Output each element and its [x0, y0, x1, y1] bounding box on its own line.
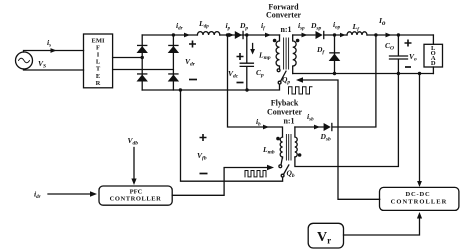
- svg-text:PFC: PFC: [130, 188, 143, 195]
- label V_fb minus: [200, 173, 208, 175]
- V_r reference box: [308, 223, 343, 248]
- node flyback secondary dot: [298, 153, 302, 157]
- label V_dr minus: [189, 79, 197, 81]
- node secondary polarity dot: [296, 39, 300, 43]
- transformer T2 primary winding: [280, 137, 282, 158]
- label V_dc minus: [237, 82, 244, 84]
- switch Q_b: [281, 157, 283, 165]
- node C_O top: [397, 33, 400, 36]
- node bottom rail flyback return: [179, 88, 182, 91]
- wire DC-DC output to Q_p gate: [303, 80, 380, 199]
- transformer T1 core: [284, 38, 289, 69]
- wire V_o sense to DC-DC controller: [419, 74, 421, 182]
- label V_o plus: [405, 40, 412, 47]
- current arrow i_s: [51, 48, 57, 53]
- bridge diode top-left: [137, 45, 148, 53]
- current arrow i_op: [340, 33, 346, 38]
- node bridge mid-left: [141, 56, 144, 59]
- PFC controller box: [99, 186, 172, 205]
- current arrow i_sb: [314, 125, 320, 130]
- diode D_p: [235, 31, 244, 39]
- diode D_f freewheel: [334, 35, 336, 74]
- node D_f top: [333, 33, 336, 36]
- node primary polarity dot: [273, 39, 277, 43]
- switch Q_p: [277, 69, 280, 72]
- svg-text:F: F: [96, 44, 100, 51]
- node bridge top-right: [172, 33, 175, 36]
- label V_dc plus: [237, 53, 244, 60]
- gate pulse waveform of Q_b: [245, 171, 266, 177]
- diode D_sb: [324, 123, 333, 131]
- svg-text:CONTROLLER: CONTROLLER: [391, 199, 448, 206]
- EMI filter box: [84, 34, 113, 88]
- current arrow I_o: [386, 33, 392, 38]
- capacitor C_p: [240, 35, 253, 90]
- current arrow i_sp: [302, 33, 308, 38]
- bridge rectifier right leg: [172, 35, 174, 90]
- wire EMI to bridge top: [113, 57, 143, 59]
- node flyback feed tap: [226, 33, 229, 36]
- wire flyback secondary bottom return: [295, 74, 399, 167]
- current arrow i_dr into PFC: [48, 193, 90, 195]
- node C_O bottom: [397, 72, 400, 75]
- node output sense tap: [418, 72, 421, 75]
- wire forward secondary top rail: [293, 34, 347, 36]
- ac source VS: [16, 52, 33, 69]
- wire forward secondary bottom: [292, 67, 294, 74]
- bridge rectifier left leg: [141, 35, 143, 90]
- wire output bottom rail: [293, 73, 434, 75]
- label V_o minus: [405, 66, 411, 68]
- svg-text:CONTROLLER: CONTROLLER: [110, 195, 162, 202]
- inductor L_dp: [197, 32, 219, 35]
- DC-DC controller box: [380, 187, 459, 210]
- svg-text:T: T: [96, 66, 101, 73]
- current arrow i_p: [229, 33, 235, 38]
- wire Q_b return to bottom rail node: [181, 90, 283, 181]
- transformer T1 secondary winding: [293, 35, 296, 66]
- gate pulse waveform of Q_p: [289, 87, 313, 94]
- node C_p top: [245, 33, 248, 36]
- wire flyback secondary top to D_sb: [295, 126, 324, 128]
- wire EMI to bridge bottom: [113, 69, 174, 71]
- wire source top to EMI: [24, 51, 84, 53]
- wire bottom DC rail: [142, 84, 279, 90]
- load box: [424, 44, 443, 67]
- current arrow i_f: [265, 33, 271, 38]
- node flyback output tie: [374, 33, 377, 36]
- svg-text:Converter: Converter: [266, 11, 302, 20]
- diode D_sp: [316, 31, 325, 39]
- svg-text:n:1: n:1: [283, 117, 294, 126]
- svg-text:L: L: [96, 59, 101, 66]
- svg-text:DC-DC: DC-DC: [406, 191, 431, 198]
- svg-text:EMI: EMI: [92, 37, 105, 44]
- bridge diode top-right: [168, 45, 179, 53]
- svg-text:Flyback: Flyback: [271, 99, 299, 108]
- transformer T1 primary winding: [276, 35, 279, 69]
- bridge diode bottom-right: [168, 73, 179, 81]
- bridge diode bottom-left: [137, 73, 148, 81]
- svg-text:E: E: [96, 73, 100, 80]
- wire source bottom to EMI: [24, 69, 84, 70]
- current arrow i_dr: [184, 33, 190, 38]
- wire load top stub: [432, 35, 434, 44]
- current annotation arrow I_mp: [252, 44, 254, 52]
- transformer T2 secondary winding: [295, 127, 297, 157]
- node C_p bottom: [245, 88, 248, 91]
- wire D_sb to output positive rail: [333, 35, 376, 127]
- transformer T2 core: [286, 135, 291, 161]
- wire load bottom stub: [432, 67, 434, 74]
- label V_fb plus: [200, 134, 207, 141]
- svg-text:R: R: [96, 80, 101, 87]
- voltage sense arrow V_db: [133, 148, 135, 180]
- label V_dr plus: [189, 41, 196, 48]
- wire top DC rail: [142, 34, 197, 36]
- inductor L_f: [347, 32, 367, 35]
- svg-text:n:1: n:1: [280, 25, 291, 34]
- wire V_r to DC-DC controller: [344, 218, 420, 235]
- node flyback primary dot: [276, 137, 280, 141]
- wire PFC output to Q_b gate: [172, 168, 267, 196]
- wire flyback feed from boost node: [228, 35, 283, 137]
- svg-text:D: D: [431, 60, 436, 67]
- current arrow i_b: [263, 125, 269, 130]
- node D_f bottom: [333, 72, 336, 75]
- capacitor C_O: [390, 35, 408, 74]
- svg-text:Converter: Converter: [267, 108, 303, 117]
